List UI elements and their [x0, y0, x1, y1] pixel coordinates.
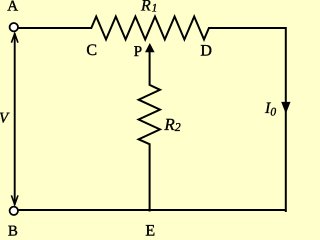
svg-text:B: B: [8, 224, 18, 237]
svg-text:D: D: [200, 42, 212, 59]
svg-text:P: P: [134, 44, 142, 60]
svg-text:A: A: [7, 0, 18, 15]
svg-text:C: C: [86, 42, 97, 59]
svg-text:E: E: [145, 223, 155, 237]
svg-text:R1: R1: [140, 0, 157, 15]
